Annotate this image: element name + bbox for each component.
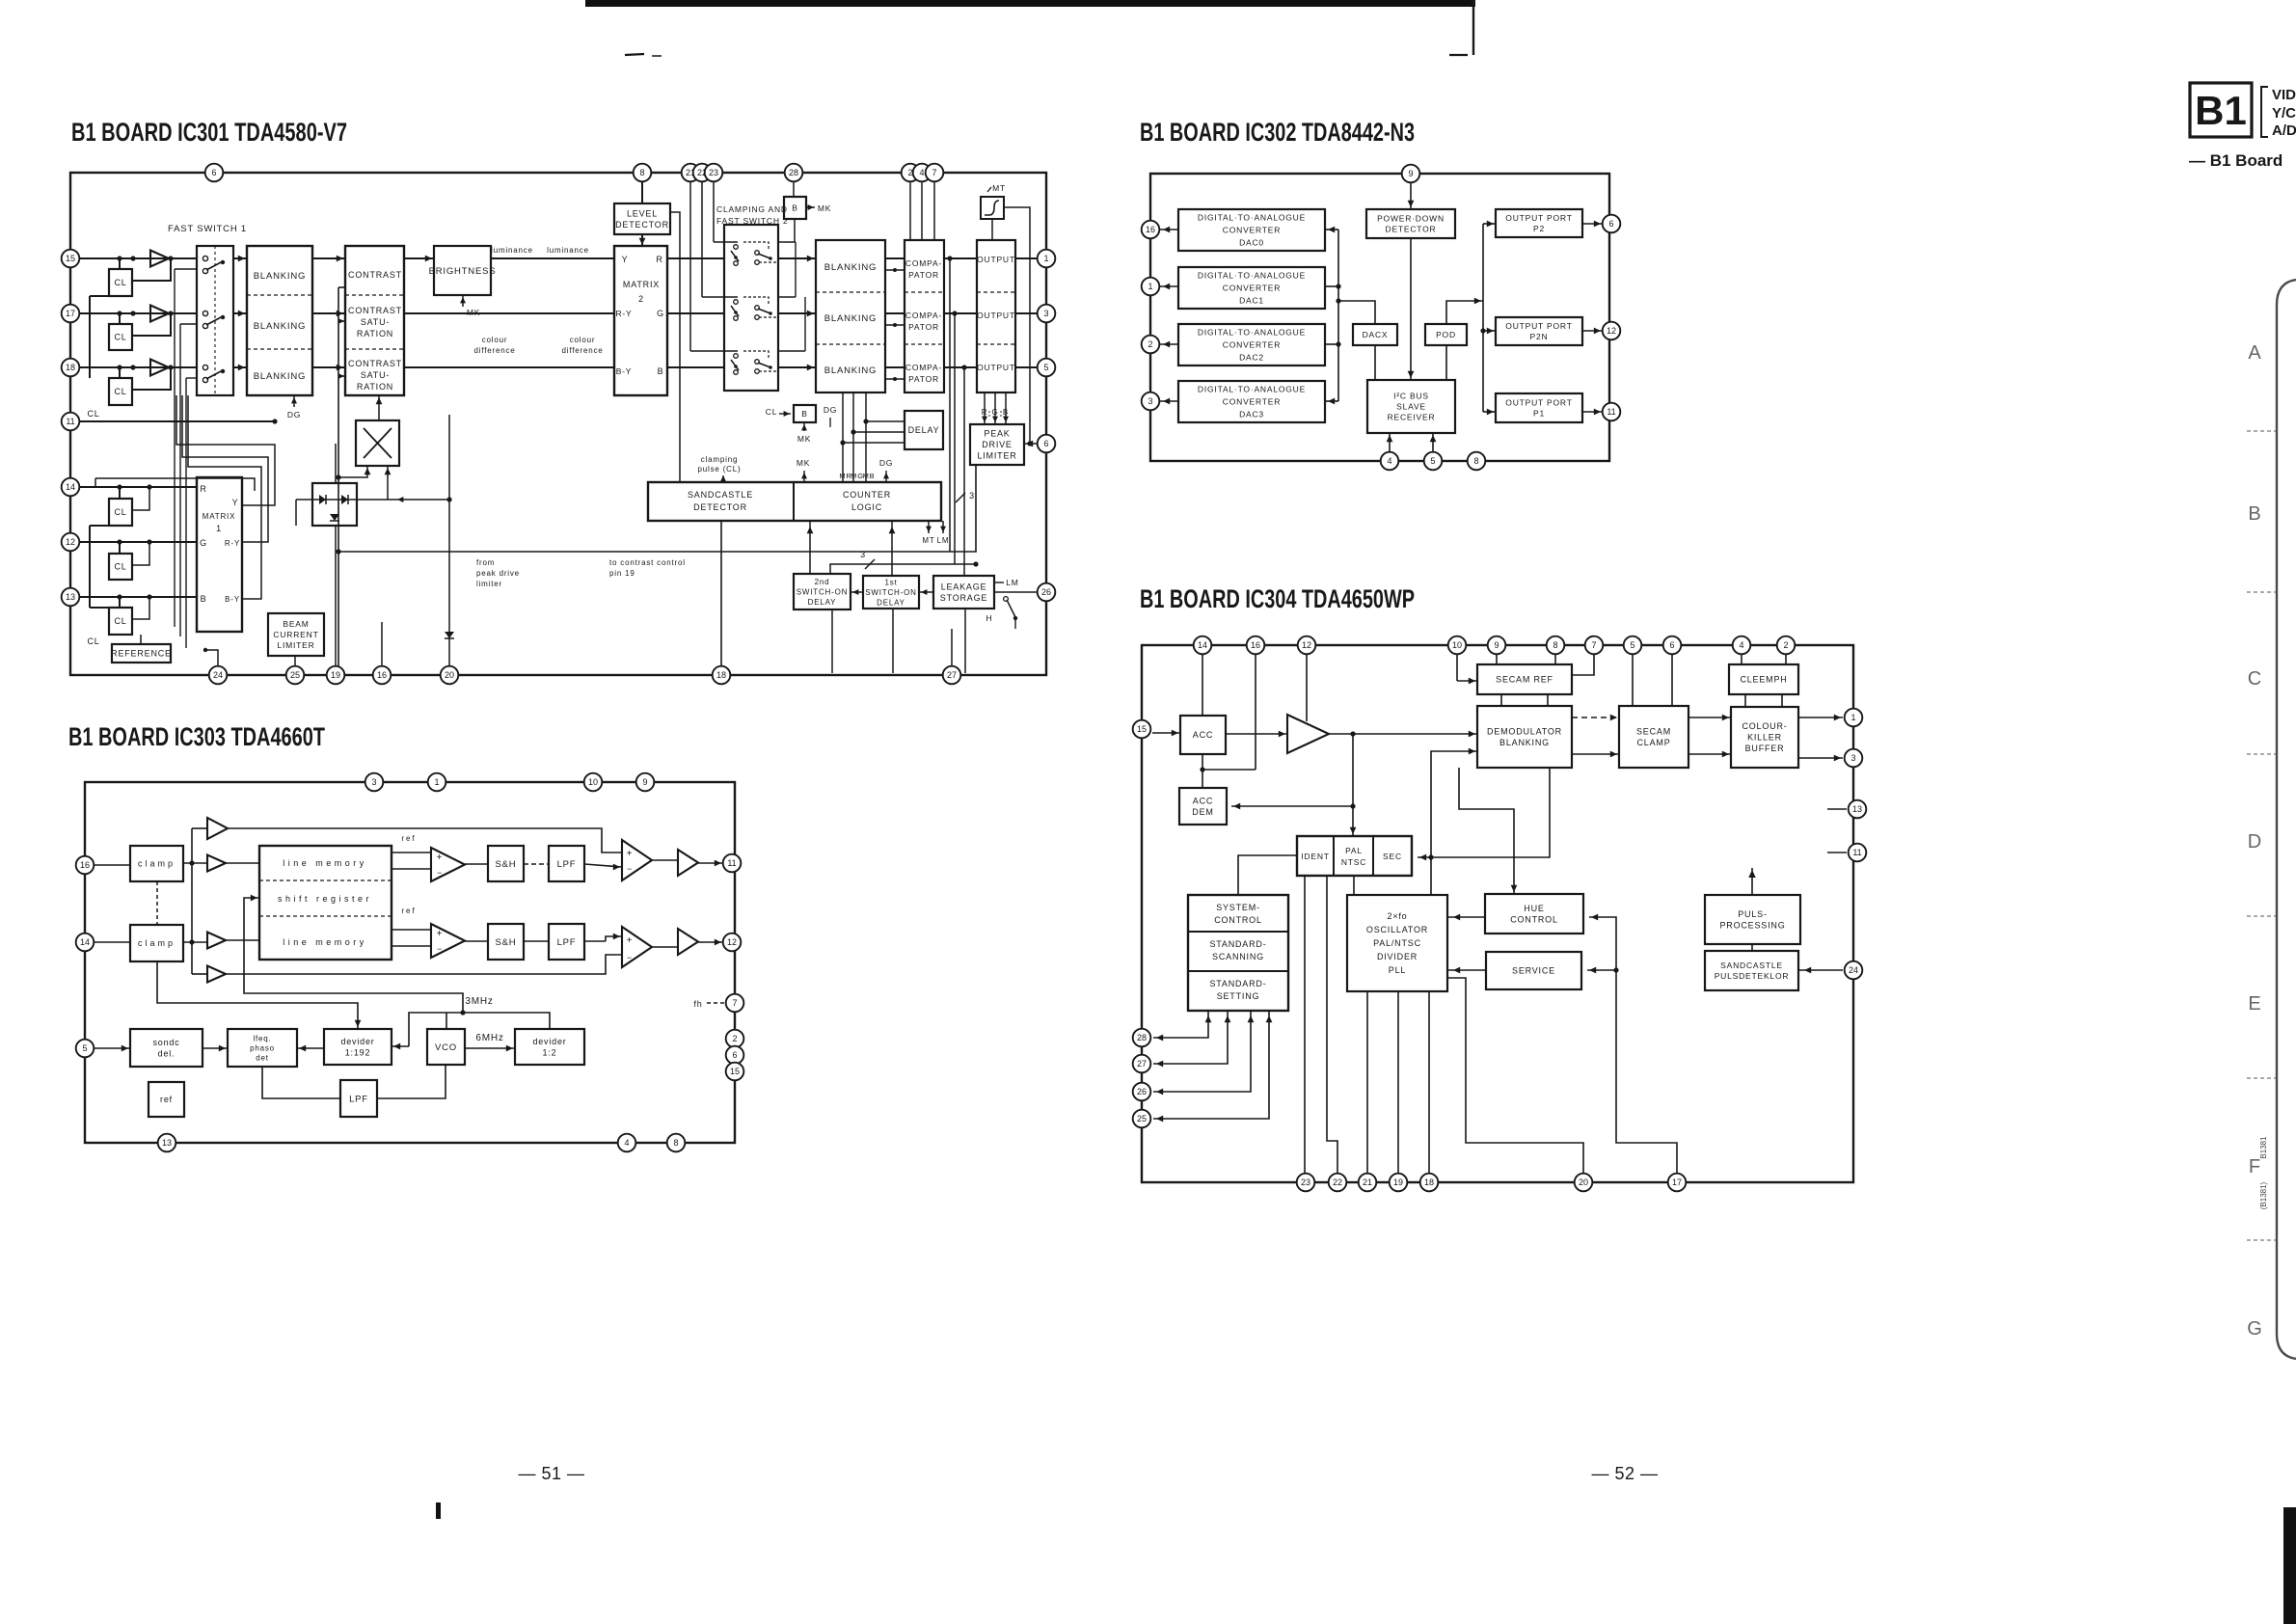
svg-text:SATU-: SATU- <box>361 317 390 327</box>
ident drops to pins 23 22 <box>1304 876 1306 1174</box>
CL tap wires ch2 <box>117 311 122 315</box>
svg-text:CL: CL <box>87 409 99 419</box>
svg-text:— 52 —: — 52 — <box>1591 1464 1658 1483</box>
switch glyph fs2 right dashed <box>743 351 769 359</box>
svg-text:SWITCH-ON: SWITCH-ON <box>797 587 848 596</box>
pin5 pin6 drops to secam clamp <box>1632 654 1634 706</box>
pin 11 wire <box>79 420 275 422</box>
svg-text:MATRIX: MATRIX <box>623 280 660 289</box>
leakage to pin 26 <box>994 591 1038 593</box>
svg-text:B: B <box>1003 408 1009 417</box>
beam current limiter box <box>268 613 324 656</box>
svg-text:DAC0: DAC0 <box>1239 237 1264 247</box>
svg-text:DIVIDER: DIVIDER <box>1377 952 1418 961</box>
B1 board label box <box>2190 83 2252 137</box>
svg-text:— B1 Board: — B1 Board <box>2189 151 2282 170</box>
puls to sandcastle <box>1751 944 1753 951</box>
pin16 drop <box>1255 654 1256 770</box>
DAC2 box <box>1178 324 1325 365</box>
DAC3 box <box>1178 381 1325 422</box>
svg-text:G: G <box>2247 1318 2262 1340</box>
svg-text:24: 24 <box>1849 965 1858 975</box>
row1 contrast-brightness <box>404 257 434 259</box>
svg-text:SANDCASTLE: SANDCASTLE <box>1720 961 1783 970</box>
svg-text:OUTPUT PORT: OUTPUT PORT <box>1505 213 1572 223</box>
svg-text:3: 3 <box>1148 396 1152 406</box>
svg-text:devider: devider <box>532 1037 566 1046</box>
svg-text:CONTROL: CONTROL <box>1510 914 1558 924</box>
svg-text:R-Y: R-Y <box>225 539 240 548</box>
IC302 left pins <box>1142 221 1160 239</box>
svg-text:SECAM: SECAM <box>1636 726 1671 736</box>
svg-text:19: 19 <box>331 670 340 680</box>
osc feedback to demodulator <box>1431 751 1477 895</box>
svg-text:15: 15 <box>66 254 75 263</box>
svg-text:21: 21 <box>1363 1177 1372 1187</box>
svg-text:PAL: PAL <box>1345 846 1363 855</box>
svg-text:R: R <box>656 255 662 264</box>
svg-text:1: 1 <box>434 777 439 787</box>
svg-text:CL: CL <box>87 636 99 646</box>
IC303 right pins <box>723 854 742 873</box>
svg-text:R-Y: R-Y <box>615 309 632 318</box>
svg-text:LM: LM <box>937 536 950 545</box>
svg-text:MK: MK <box>818 203 831 213</box>
svg-text:5: 5 <box>82 1043 87 1053</box>
LPF2 to diff2 <box>584 940 606 942</box>
svg-text:PATOR: PATOR <box>908 374 939 384</box>
MR MG MB verticals <box>842 392 844 482</box>
IC304 top pins <box>1194 636 1212 655</box>
svg-text:17: 17 <box>66 309 75 318</box>
svg-text:CONVERTER: CONVERTER <box>1223 339 1281 349</box>
svg-text:G: G <box>657 309 664 318</box>
svg-text:−: − <box>627 953 633 962</box>
LPF1 to diff1 <box>584 864 622 867</box>
svg-text:6MHz: 6MHz <box>475 1033 503 1043</box>
svg-text:OUTPUT: OUTPUT <box>977 311 1015 320</box>
counter bottom arrows <box>809 521 811 574</box>
svg-text:+: + <box>437 853 444 863</box>
POD riser <box>1446 301 1483 324</box>
svg-text:— 51 —: — 51 — <box>518 1464 584 1483</box>
svg-text:10: 10 <box>1452 640 1462 650</box>
VCO box <box>427 1029 465 1065</box>
IC301 left pins <box>62 250 80 268</box>
comp to S&H wires <box>465 863 488 865</box>
svg-text:CLEEMPH: CLEEMPH <box>1740 675 1787 685</box>
svg-text:DG: DG <box>879 458 893 468</box>
clamp2 to T3 <box>183 941 207 943</box>
fs2 to blanking2 rows <box>779 257 816 259</box>
svg-text:difference: difference <box>474 346 516 355</box>
clamp2 to divider wire <box>157 961 358 1029</box>
fast switch 1 box <box>197 246 233 395</box>
clamp1 output node <box>183 862 207 864</box>
svg-text:sondc: sondc <box>152 1038 179 1047</box>
svg-text:LPF: LPF <box>349 1094 368 1104</box>
3MHz distribution <box>409 1013 550 1046</box>
level detector box <box>614 203 670 234</box>
MT limiter box <box>981 197 1004 219</box>
svg-text:FAST SWITCH 1: FAST SWITCH 1 <box>168 224 247 234</box>
lower input rows to matrix1 <box>79 486 197 488</box>
osc to service wire <box>1447 969 1486 971</box>
buffer T2 <box>207 855 226 872</box>
IC303 top pins <box>365 773 384 792</box>
IC301 outer boundary <box>70 173 1046 675</box>
svg-text:8: 8 <box>673 1138 678 1148</box>
SECAM REF box <box>1477 664 1572 694</box>
svg-text:ACC: ACC <box>1193 796 1213 805</box>
svg-text:luminance: luminance <box>547 246 589 255</box>
pin14 drop <box>1202 654 1203 716</box>
demod to SEC wire <box>1418 768 1550 857</box>
pin13 pin11 stubs <box>1827 808 1847 810</box>
B box top <box>784 197 806 219</box>
lfeq phaso det box <box>228 1029 297 1067</box>
svg-text:SECAM REF: SECAM REF <box>1496 675 1553 685</box>
switch glyph fs1 <box>203 256 207 260</box>
DAC right bus <box>1337 230 1339 401</box>
pin15 to ACC <box>1152 732 1180 734</box>
svg-text:18: 18 <box>716 670 726 680</box>
svg-text:S&H: S&H <box>496 859 517 870</box>
svg-text:LPF: LPF <box>557 859 577 870</box>
svg-text:Y/C: Y/C <box>2272 105 2296 122</box>
comparator box <box>905 240 944 392</box>
devider 1:192 box <box>324 1029 392 1065</box>
out buffer 2 <box>678 929 698 955</box>
svg-text:DG: DG <box>287 410 301 420</box>
DAC left wires <box>1160 229 1178 230</box>
svg-text:CONTRAST: CONTRAST <box>348 359 402 368</box>
svg-text:23: 23 <box>1301 1177 1310 1187</box>
svg-text:B: B <box>658 366 664 376</box>
left pins to standard setting <box>1153 1011 1208 1038</box>
svg-text:8: 8 <box>1473 456 1478 466</box>
svg-text:6: 6 <box>1043 439 1048 448</box>
svg-text:LEAKAGE: LEAKAGE <box>941 582 987 591</box>
svg-text:ref: ref <box>401 834 416 843</box>
IC304 left pins <box>1133 720 1151 739</box>
line memory box <box>259 846 392 960</box>
svg-text:3MHz: 3MHz <box>465 996 493 1007</box>
svg-text:B1 BOARD IC301 TDA4580-V7: B1 BOARD IC301 TDA4580-V7 <box>71 118 347 147</box>
output port P2 box <box>1496 209 1582 237</box>
svg-text:CL: CL <box>766 407 777 417</box>
IC302 bottom pins <box>1381 452 1399 471</box>
svg-text:5: 5 <box>1630 640 1634 650</box>
switch glyph fs2 left <box>734 300 739 305</box>
T1 input feed <box>192 827 207 829</box>
diff2 triangle <box>622 927 652 967</box>
svg-text:VID: VID <box>2272 87 2296 103</box>
svg-text:pulse (CL): pulse (CL) <box>698 465 742 474</box>
level detector to matrix2 <box>641 234 643 247</box>
node to ACC DEM <box>1231 805 1353 807</box>
svg-text:7: 7 <box>932 168 936 177</box>
svg-text:23: 23 <box>709 168 718 177</box>
svg-text:pin 19: pin 19 <box>609 569 635 578</box>
svg-text:lfeq.: lfeq. <box>253 1034 271 1042</box>
svg-text:6: 6 <box>211 168 216 177</box>
svg-text:B1381: B1381 <box>2259 1136 2268 1159</box>
svg-text:SATU-: SATU- <box>361 370 390 380</box>
switch glyph fs2 left <box>734 354 739 359</box>
clamp box 2 <box>130 925 183 961</box>
svg-text:G: G <box>200 538 207 548</box>
POD box <box>1425 324 1467 345</box>
svg-text:DELAY: DELAY <box>808 598 837 607</box>
ACC to ACC DEM riser <box>1202 754 1203 788</box>
svg-text:B: B <box>201 594 207 604</box>
svg-text:1st: 1st <box>884 578 897 586</box>
svg-text:PEAK: PEAK <box>984 429 1010 439</box>
bottom left registration tick <box>436 1502 441 1519</box>
pin9 pin8 drops <box>1496 654 1498 664</box>
HUE CONTROL box <box>1485 894 1583 934</box>
demod to secam clamp wires <box>1572 717 1619 718</box>
svg-text:S&H: S&H <box>496 937 517 948</box>
lfeq to LPF loop <box>262 1067 340 1098</box>
svg-text:BLANKING: BLANKING <box>254 371 306 382</box>
svg-text:CONVERTER: CONVERTER <box>1223 283 1281 292</box>
DACX POD to i2c <box>1374 345 1376 380</box>
multiplier box <box>356 420 399 466</box>
IC302 pin 9 top <box>1402 165 1420 183</box>
svg-text:CL: CL <box>114 616 126 626</box>
svg-text:B1 BOARD IC303 TDA4660T: B1 BOARD IC303 TDA4660T <box>68 722 325 751</box>
output box <box>977 240 1015 392</box>
level detector side wire <box>670 212 680 482</box>
svg-text:BUFFER: BUFFER <box>1745 744 1785 753</box>
svg-text:SLAVE: SLAVE <box>1396 401 1426 411</box>
svg-text:to contrast control: to contrast control <box>609 558 686 567</box>
lower clamp CL 5 <box>109 554 132 580</box>
svg-text:R: R <box>982 408 988 417</box>
svg-text:Y: Y <box>232 498 239 507</box>
B1 bracket list VID Y/C A/D <box>2261 87 2268 137</box>
svg-text:13: 13 <box>1852 804 1862 814</box>
feedback loop nest 1 <box>176 395 275 505</box>
svg-text:BLANKING: BLANKING <box>824 313 877 324</box>
svg-text:1: 1 <box>1850 713 1855 722</box>
multiplier bottom feeds <box>336 474 340 479</box>
CLEEMPH box <box>1729 664 1798 694</box>
svg-text:SCANNING: SCANNING <box>1212 952 1264 961</box>
svg-text:PATOR: PATOR <box>908 322 939 332</box>
clamp CL box 2 <box>109 324 132 350</box>
CL chain vertical <box>89 296 91 378</box>
MT box to output <box>991 219 993 240</box>
svg-text:ACC: ACC <box>1193 730 1213 740</box>
svg-text:LM: LM <box>1006 578 1018 587</box>
IC304 right pins <box>1845 709 1863 727</box>
svg-text:PLL: PLL <box>1389 965 1406 975</box>
VCO riser <box>446 1013 447 1029</box>
line memory outputs to comp1 <box>392 852 431 853</box>
svg-text:SYSTEM-: SYSTEM- <box>1216 903 1260 912</box>
svg-text:POWER·DOWN: POWER·DOWN <box>1377 213 1445 223</box>
svg-text:12: 12 <box>66 537 75 547</box>
svg-text:BLANKING: BLANKING <box>824 365 877 376</box>
svg-text:12: 12 <box>1607 326 1616 336</box>
svg-text:3: 3 <box>860 550 866 559</box>
switch glyph fs2 right dashed <box>743 297 769 305</box>
svg-text:peak drive: peak drive <box>476 569 520 578</box>
svg-text:1:2: 1:2 <box>543 1047 557 1057</box>
svg-text:14: 14 <box>66 482 75 492</box>
svg-text:limiter: limiter <box>476 580 502 588</box>
svg-text:2: 2 <box>1148 339 1152 349</box>
diode glyphs in box <box>319 495 326 504</box>
clamp box 1 <box>130 846 183 881</box>
svg-text:DAC2: DAC2 <box>1239 352 1264 362</box>
pin7 elbow to secam ref <box>1572 654 1594 675</box>
pin20 path to osc <box>1447 978 1583 1174</box>
pin 24 elbow <box>204 650 218 666</box>
row1 brightness to matrix2 <box>491 257 614 259</box>
svg-text:1:192: 1:192 <box>345 1047 371 1057</box>
CL tap wires ch1 <box>117 256 122 260</box>
svg-text:MK: MK <box>797 434 811 444</box>
svg-text:LIMITER: LIMITER <box>277 640 314 650</box>
svg-text:CONTROL: CONTROL <box>1214 915 1262 925</box>
svg-text:27: 27 <box>947 670 957 680</box>
svg-text:DEMODULATOR: DEMODULATOR <box>1487 726 1562 736</box>
VCO to devider 1:2 6MHz <box>465 1047 515 1049</box>
svg-text:25: 25 <box>290 670 300 680</box>
svg-text:OUTPUT PORT: OUTPUT PORT <box>1505 321 1572 331</box>
brightness box <box>434 246 491 295</box>
svg-text:18: 18 <box>1424 1177 1434 1187</box>
demod to hue wire <box>1459 768 1514 894</box>
rows blanking to contrast <box>312 257 345 259</box>
svg-text:B: B <box>801 409 807 419</box>
svg-text:1: 1 <box>216 524 222 533</box>
svg-text:2nd: 2nd <box>815 578 830 586</box>
svg-text:3: 3 <box>1850 753 1855 763</box>
T4 bypass wire <box>226 955 622 974</box>
svg-text:LEVEL: LEVEL <box>627 208 658 218</box>
svg-text:R: R <box>200 484 206 494</box>
svg-text:11: 11 <box>1607 407 1615 417</box>
IC303 outer boundary <box>85 782 735 1143</box>
diode box horizontal wire <box>296 499 449 501</box>
svg-text:2×fo: 2×fo <box>1388 911 1408 921</box>
svg-text:ref: ref <box>401 907 416 915</box>
svg-text:CL: CL <box>114 507 126 517</box>
svg-text:DIGITAL·TO·ANALOGUE: DIGITAL·TO·ANALOGUE <box>1198 270 1306 280</box>
secam ref to demod stubs <box>1500 694 1502 706</box>
SANDCASTLE PULSDETEKLOR box <box>1705 951 1798 990</box>
ACC DEM box <box>1179 788 1227 825</box>
svg-text:14: 14 <box>1198 640 1207 650</box>
peak drive limiter box <box>970 424 1024 465</box>
svg-text:2: 2 <box>638 294 644 304</box>
output to right pins <box>1015 257 1038 259</box>
svg-text:−: − <box>627 864 633 874</box>
svg-text:19: 19 <box>1393 1177 1403 1187</box>
svg-text:8: 8 <box>1553 640 1557 650</box>
svg-text:25: 25 <box>1137 1114 1147 1123</box>
osc bottom drops <box>1366 991 1368 1174</box>
svg-text:DAC3: DAC3 <box>1239 409 1264 419</box>
matrix2 to fast switch2 rows <box>667 257 723 259</box>
svg-text:Y: Y <box>622 255 629 264</box>
svg-text:RATION: RATION <box>357 329 393 338</box>
svg-text:OUTPUT: OUTPUT <box>977 363 1015 372</box>
RGB drive wires to peak limiter <box>984 392 986 424</box>
svg-text:D: D <box>2248 831 2261 853</box>
right margin rounded bracket <box>2277 280 2296 1359</box>
contrast control feed <box>338 287 339 666</box>
svg-text:DIGITAL·TO·ANALOGUE: DIGITAL·TO·ANALOGUE <box>1198 384 1306 393</box>
pin27 riser <box>951 629 953 666</box>
switch-on bus wire <box>830 564 976 574</box>
IC301 input row G wire <box>79 312 197 314</box>
svg-text:SEC: SEC <box>1383 852 1402 861</box>
svg-text:BLANKING: BLANKING <box>254 271 306 282</box>
MK under brightness <box>462 295 464 307</box>
blanking box 2 <box>816 240 885 392</box>
puls processing up arrow <box>1751 868 1753 895</box>
svg-text:COMPA-: COMPA- <box>905 258 942 268</box>
IC301 bottom pins <box>209 666 228 685</box>
svg-text:del.: del. <box>158 1048 176 1058</box>
svg-text:6: 6 <box>1669 640 1674 650</box>
svg-text:phaso: phaso <box>250 1043 275 1052</box>
COLOUR KILLER BUFFER box <box>1731 707 1798 768</box>
output port P2N box <box>1496 317 1582 345</box>
CL tap wires ch3 <box>117 365 122 369</box>
svg-text:DRIVE: DRIVE <box>982 440 1013 449</box>
svg-text:colour: colour <box>482 336 508 344</box>
svg-text:A: A <box>2248 342 2261 364</box>
lower clamp CL 6 <box>109 608 132 635</box>
feedback loop nest 2 <box>182 395 268 542</box>
input buffer A1 <box>150 251 169 267</box>
IC301 input row R wire <box>79 257 197 259</box>
svg-text:7: 7 <box>1591 640 1596 650</box>
IDENT PAL NTSC SEC box <box>1297 836 1412 876</box>
svg-text:clamp: clamp <box>138 938 176 948</box>
pin5 to sondc <box>94 1047 130 1049</box>
power-down detector box <box>1366 209 1455 238</box>
svg-text:PULS-: PULS- <box>1738 909 1768 919</box>
svg-text:8: 8 <box>639 168 644 177</box>
svg-text:SWITCH-ON: SWITCH-ON <box>865 588 916 597</box>
pin24 to sandcastle detector <box>1798 969 1843 971</box>
svg-text:PULSDETEKLOR: PULSDETEKLOR <box>1715 971 1790 981</box>
blanking2 to comparator rows <box>885 257 905 259</box>
svg-text:LPF: LPF <box>557 937 577 948</box>
feedback loop nest 3 <box>188 395 261 599</box>
svg-text:B1 BOARD IC304 TDA4650WP: B1 BOARD IC304 TDA4650WP <box>1140 584 1415 613</box>
svg-text:16: 16 <box>80 860 90 870</box>
svg-text:PROCESSING: PROCESSING <box>1719 920 1785 930</box>
svg-text:12: 12 <box>727 937 737 947</box>
svg-text:shift register: shift register <box>278 894 372 904</box>
svg-text:13: 13 <box>162 1138 172 1148</box>
svg-text:(B1381): (B1381) <box>2259 1181 2268 1209</box>
fast switch 2 box <box>724 225 778 391</box>
main amplifier triangle <box>1287 715 1329 753</box>
cleemph to colour killer <box>1744 694 1746 707</box>
svg-text:+: + <box>627 935 634 946</box>
svg-text:BEAM: BEAM <box>283 619 309 629</box>
